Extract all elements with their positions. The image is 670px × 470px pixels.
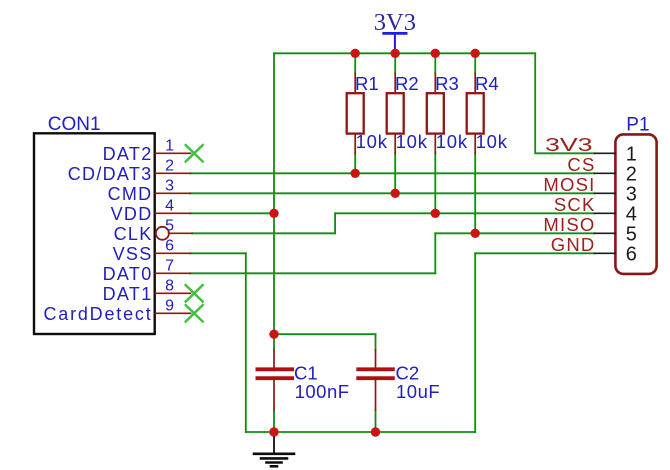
svg-text:R3: R3 xyxy=(435,73,459,94)
junction ground rail C2 xyxy=(371,427,380,436)
wire R2 bottom to MOSI xyxy=(394,154,396,194)
wire 3V3 riser from rail through VDD to cap top xyxy=(273,53,275,334)
svg-text:DAT0: DAT0 xyxy=(103,264,153,284)
junction rail-R1 xyxy=(351,49,360,58)
connector P1 xyxy=(615,115,656,274)
svg-text:4: 4 xyxy=(626,203,637,225)
svg-text:R2: R2 xyxy=(395,73,419,94)
junction R2-MOSI xyxy=(391,189,400,198)
wire C1 bottom joint xyxy=(273,410,275,432)
svg-text:VSS: VSS xyxy=(113,244,153,264)
pin 7 DAT0 xyxy=(103,257,191,283)
connector CON1 xyxy=(34,114,155,334)
svg-text:CardDetect: CardDetect xyxy=(43,304,152,324)
svg-text:7: 7 xyxy=(165,257,174,274)
ground symbol xyxy=(254,432,294,466)
wire DAT0-MISO riser xyxy=(434,233,436,273)
junction R1-CS xyxy=(351,169,360,178)
wire CLK row xyxy=(192,232,335,234)
pin 4 VDD xyxy=(111,197,191,223)
P1 pin 5 xyxy=(595,223,637,245)
svg-text:4: 4 xyxy=(165,197,174,214)
wire VSS drop to ground rail xyxy=(245,253,247,432)
wire bottom ground rail xyxy=(246,431,475,433)
svg-text:5: 5 xyxy=(626,223,637,245)
pin 5 CLK (inverted bubble) xyxy=(114,217,192,243)
junction VDD-riser xyxy=(269,209,278,218)
svg-text:DAT1: DAT1 xyxy=(103,284,153,304)
capacitor C1 xyxy=(257,350,349,410)
no-connect X pin1 xyxy=(186,145,203,161)
junction rail-R3 xyxy=(431,49,440,58)
wire CLK-SCK step xyxy=(334,213,336,233)
wire 3V3 drop to P1 pin1 xyxy=(535,53,594,153)
P1 pin 1 xyxy=(595,143,637,165)
P1 pin 3 xyxy=(595,183,637,205)
svg-text:3V3: 3V3 xyxy=(545,134,593,155)
P1 pin 4 xyxy=(595,203,637,225)
svg-text:10k: 10k xyxy=(356,131,388,152)
wire R3 top xyxy=(434,53,436,73)
wire VDD to 3V3 riser xyxy=(190,212,274,214)
wire cap top branch xyxy=(274,333,376,335)
svg-text:100nF: 100nF xyxy=(295,381,350,402)
no-connect X pin9 xyxy=(186,305,203,321)
svg-text:MOSI: MOSI xyxy=(543,174,595,195)
wire C2 bottom joint xyxy=(375,410,377,432)
svg-text:DAT2: DAT2 xyxy=(103,144,153,164)
pin 6 VSS xyxy=(113,237,191,263)
resistor R4 xyxy=(467,73,508,153)
svg-text:CD/DAT3: CD/DAT3 xyxy=(68,164,153,184)
svg-text:2: 2 xyxy=(165,157,174,174)
wire R4 bottom to MISO xyxy=(474,154,476,234)
svg-text:10k: 10k xyxy=(436,131,468,152)
wire MOSI row (CMD to P1 pin3) xyxy=(190,192,595,194)
P1 pin 6 xyxy=(595,243,637,265)
svg-text:6: 6 xyxy=(165,237,174,254)
pin 9 CardDetect xyxy=(43,297,190,323)
svg-text:3: 3 xyxy=(626,183,637,205)
wire R1 bottom to CS xyxy=(354,154,356,174)
svg-text:8: 8 xyxy=(165,277,174,294)
svg-text:CS: CS xyxy=(567,154,595,175)
svg-text:2: 2 xyxy=(626,163,637,185)
wire GND drop xyxy=(474,253,476,432)
wire SCK row to P1 pin4 xyxy=(335,212,594,214)
resistor R1 xyxy=(347,73,388,153)
svg-text:9: 9 xyxy=(165,297,174,314)
svg-text:10k: 10k xyxy=(476,131,508,152)
svg-text:CON1: CON1 xyxy=(48,114,101,135)
wire MISO row to P1 pin5 xyxy=(435,232,594,234)
capacitor C2 xyxy=(358,350,440,410)
power symbol 3V3 xyxy=(374,9,416,53)
junction R4-MISO xyxy=(471,229,480,238)
wire 3V3 top rail xyxy=(274,52,535,54)
wire CS row (CD/DAT3 to P1 pin2) xyxy=(190,172,595,174)
svg-text:P1: P1 xyxy=(626,115,649,136)
pin 8 DAT1 xyxy=(103,277,191,303)
svg-text:3: 3 xyxy=(165,177,174,194)
P1 pin 2 xyxy=(595,163,637,185)
svg-text:CMD: CMD xyxy=(108,184,153,204)
wire R3 bottom to SCK xyxy=(434,154,436,214)
wire VSS stub xyxy=(190,252,246,254)
pin 2 CD/DAT3 xyxy=(68,157,191,183)
svg-text:CLK: CLK xyxy=(114,224,153,244)
svg-text:6: 6 xyxy=(626,243,637,265)
svg-text:3V3: 3V3 xyxy=(374,9,416,36)
wire R4 top xyxy=(474,53,476,73)
svg-text:1: 1 xyxy=(165,137,174,154)
junction ground rail C1 xyxy=(269,427,278,436)
pin 3 CMD xyxy=(108,177,191,203)
wire GND row from P1 pin6 xyxy=(475,252,594,254)
svg-text:1: 1 xyxy=(626,143,637,165)
pin 1 DAT2 xyxy=(103,137,191,163)
svg-text:VDD: VDD xyxy=(111,204,153,224)
svg-text:5: 5 xyxy=(165,217,174,234)
svg-text:R1: R1 xyxy=(355,73,379,94)
svg-text:10uF: 10uF xyxy=(396,381,440,402)
wire DAT0 row xyxy=(190,272,435,274)
resistor R2 xyxy=(387,73,428,153)
junction R3-SCK xyxy=(431,209,440,218)
resistor R3 xyxy=(427,73,468,153)
svg-text:GND: GND xyxy=(551,234,596,255)
junction cap top branch xyxy=(269,330,278,339)
wire C1 top lead joint xyxy=(273,334,275,350)
svg-text:10k: 10k xyxy=(396,131,428,152)
no-connect X pin8 xyxy=(186,285,203,301)
junction rail-R2/3V3 xyxy=(391,49,400,58)
svg-text:MISO: MISO xyxy=(543,214,595,235)
wire C2 top drop xyxy=(375,334,377,350)
wire R1 top xyxy=(354,53,356,73)
svg-text:SCK: SCK xyxy=(554,194,596,215)
junction rail-R4 xyxy=(471,49,480,58)
svg-text:R4: R4 xyxy=(475,73,499,94)
wire R2 top xyxy=(394,53,396,73)
